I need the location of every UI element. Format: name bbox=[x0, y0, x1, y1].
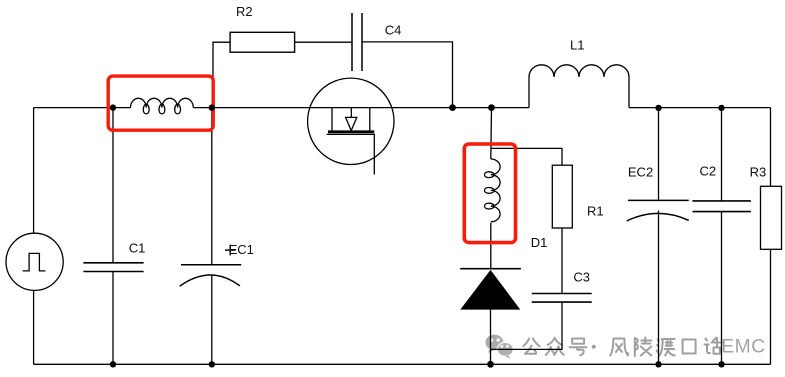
red highlight box 1 bbox=[108, 76, 213, 130]
red highlight box 2 bbox=[464, 144, 515, 243]
wire C2 branch lower bbox=[721, 212, 723, 365]
inductor (filter choke, in red box 1) bbox=[131, 98, 194, 114]
capacitor C4 bbox=[352, 13, 362, 71]
glyph 陵 bbox=[635, 338, 652, 357]
svg-text:EC1: EC1 bbox=[229, 242, 254, 257]
wire tap to R1 bbox=[491, 148, 562, 165]
node dot bottom EC2 bbox=[655, 361, 661, 367]
glyph 众 bbox=[546, 338, 564, 355]
wire top-left horizontal bbox=[34, 107, 113, 109]
wire R2 to C4 bbox=[295, 41, 352, 43]
node dot rail C2 bbox=[718, 105, 724, 111]
capacitor C2 bbox=[692, 201, 751, 212]
svg-text:EC2: EC2 bbox=[628, 165, 653, 180]
wire R3 branch upper bbox=[770, 108, 772, 187]
electrolytic capacitor EC2 bbox=[627, 200, 689, 221]
capacitor C1 bbox=[83, 263, 143, 272]
node dot bottom C2 bbox=[718, 361, 724, 367]
diode D1 bbox=[460, 269, 521, 310]
wire C3 bottom bend bbox=[491, 302, 563, 349]
glyph 话 bbox=[705, 338, 723, 354]
svg-text:EMC: EMC bbox=[721, 336, 765, 357]
node dot bottom EC1 bbox=[209, 361, 215, 367]
node dot rail EC2 bbox=[655, 105, 661, 111]
svg-text:D1: D1 bbox=[531, 235, 548, 250]
node dot bottom C1 bbox=[110, 361, 116, 367]
wire EC2 branch lower bbox=[658, 211, 660, 365]
wire EC1 branch upper bbox=[211, 108, 213, 265]
resistor R3 bbox=[761, 186, 782, 249]
wire C1 branch upper bbox=[112, 108, 114, 263]
wire coil1 lead right bbox=[193, 107, 213, 109]
node dot rail A bbox=[110, 104, 116, 110]
wire left vertical upper bbox=[33, 108, 35, 234]
wire C4 right to rail bbox=[362, 42, 453, 108]
inductor L1 bbox=[529, 65, 629, 108]
capacitor C3 bbox=[532, 294, 592, 303]
wire diode to bottom rail bbox=[490, 309, 492, 365]
watermark text (CJK drawn as paths) bbox=[523, 336, 765, 357]
wire rail after L1 bbox=[629, 107, 771, 109]
wire R1 to C3 bbox=[561, 228, 563, 294]
glyph 号 bbox=[570, 339, 587, 356]
wire rail to L1 bbox=[453, 107, 530, 109]
node dot rail inductor2 bbox=[488, 104, 495, 111]
glyph 口 bbox=[683, 340, 696, 354]
wire R3 branch lower bbox=[770, 249, 772, 364]
wire EC2 branch upper bbox=[658, 108, 660, 201]
glyph 风 bbox=[610, 339, 628, 356]
wire C1 branch lower bbox=[112, 272, 114, 365]
wire left vertical lower bbox=[33, 290, 35, 364]
glyph 公 bbox=[523, 339, 539, 354]
label polarity dash EC1 bbox=[225, 249, 236, 251]
svg-text:C2: C2 bbox=[700, 163, 717, 178]
wire R2 branch up bbox=[213, 42, 230, 107]
node dot rail C4/drain bbox=[449, 104, 456, 111]
wire inductor2 branch from rail bbox=[490, 108, 493, 159]
svg-text:C1: C1 bbox=[129, 240, 146, 255]
wire bottom rail bbox=[34, 363, 771, 365]
wire coil1 lead left bbox=[113, 107, 131, 109]
wire EC1 branch lower bbox=[211, 275, 213, 364]
separator dot bbox=[592, 345, 596, 349]
electrolytic capacitor EC1 bbox=[180, 265, 242, 286]
node dot rail B bbox=[209, 104, 215, 110]
wire C2 branch upper bbox=[721, 108, 723, 201]
mosfet Q1 bbox=[308, 78, 394, 174]
resistor R1 bbox=[552, 165, 572, 228]
resistor R2 bbox=[230, 32, 295, 52]
svg-text:L1: L1 bbox=[570, 37, 584, 52]
svg-text:R2: R2 bbox=[236, 4, 253, 19]
node dot bottom D1 bbox=[487, 361, 494, 368]
glyph 渡 bbox=[657, 339, 675, 356]
inductor 2 (vertical, in red box 2) bbox=[485, 159, 501, 222]
svg-text:C3: C3 bbox=[573, 269, 590, 284]
svg-text:C4: C4 bbox=[385, 23, 402, 38]
wire inductor2 to diode bbox=[490, 223, 492, 269]
svg-text:R3: R3 bbox=[750, 165, 767, 180]
svg-text:R1: R1 bbox=[587, 203, 604, 218]
watermark wechat icon bbox=[486, 335, 514, 359]
pulse source V1 bbox=[6, 233, 63, 290]
wire top rail through mosfet bbox=[213, 107, 453, 109]
